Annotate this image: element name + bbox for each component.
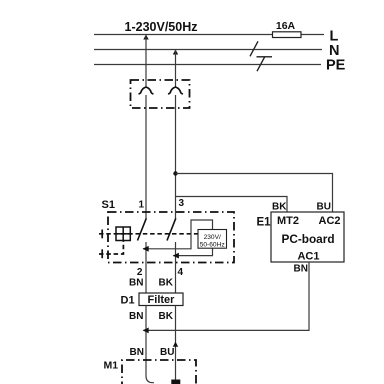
PC-board box E1 <box>271 212 344 262</box>
lamp wiring loop <box>143 220 213 256</box>
wire from L down to connector <box>145 35 147 88</box>
svg-text:BK: BK <box>159 278 174 289</box>
svg-text:PE: PE <box>326 58 346 74</box>
arrow AC1 return onto BN wire <box>143 328 149 334</box>
svg-text:1: 1 <box>139 200 145 211</box>
svg-text:16A: 16A <box>276 20 296 32</box>
arrow connection to N <box>173 50 178 55</box>
wire contact 2 down <box>145 242 147 293</box>
mechanical linkage 2 dashed <box>99 241 123 255</box>
svg-text:BK: BK <box>272 202 287 213</box>
svg-text:AC1: AC1 <box>297 251 319 263</box>
lamp rating box <box>198 230 227 249</box>
supply line PE <box>94 64 321 66</box>
filter box D1 <box>139 293 183 306</box>
svg-text:D1: D1 <box>121 295 135 307</box>
wire AC1 return to BN <box>144 262 310 330</box>
contact blade 1-2 <box>138 218 147 240</box>
switch S1 enclosure dash-dot box <box>108 212 234 263</box>
svg-text:BN: BN <box>130 347 144 358</box>
svg-text:BU: BU <box>160 347 174 358</box>
svg-text:Filter: Filter <box>148 294 176 306</box>
svg-text:PC-board: PC-board <box>281 232 334 246</box>
svg-text:MT2: MT2 <box>277 215 299 227</box>
svg-text:S1: S1 <box>102 199 115 211</box>
supply line L <box>94 34 324 36</box>
motor M1 enclosure dash-dot box <box>122 360 196 384</box>
contact blade 3-4 <box>167 218 176 240</box>
svg-text:3: 3 <box>179 198 185 209</box>
junction node on N wire <box>173 171 177 175</box>
svg-text:50-60Hz: 50-60Hz <box>200 241 225 248</box>
connector housing dash-dot box <box>131 80 190 108</box>
svg-text:BK: BK <box>159 311 174 322</box>
wire from N down to connector <box>175 50 177 88</box>
svg-text:BN: BN <box>129 311 143 322</box>
wire plug pin left down to S1 contact 1 <box>145 95 147 219</box>
lamp tap arrow on wire 2 <box>143 246 149 252</box>
lamp tap arrow on wire 4 <box>173 253 179 259</box>
svg-text:E1: E1 <box>257 217 272 229</box>
actuator square cross line vertical <box>122 227 124 241</box>
wire branch BU to AC2 <box>176 174 333 213</box>
svg-text:AC2: AC2 <box>319 215 341 227</box>
svg-text:BU: BU <box>317 202 331 213</box>
svg-text:2: 2 <box>137 267 143 278</box>
wire plug pin right down to S1 contact 3 <box>175 95 177 219</box>
PE-line break tick bar <box>257 56 273 58</box>
svg-text:BN: BN <box>129 278 143 289</box>
arrow up on BU wire <box>173 342 178 347</box>
supply line N <box>94 49 322 51</box>
svg-text:BN: BN <box>294 264 308 275</box>
svg-text:1-230V/50Hz: 1-230V/50Hz <box>125 20 198 34</box>
N-line break slash <box>250 41 258 56</box>
linkage end tick upper <box>101 230 103 239</box>
linkage end tick lower <box>101 249 103 258</box>
connector socket arc right <box>169 87 183 94</box>
svg-text:4: 4 <box>178 267 184 278</box>
wire BK/BU filter down to M1 <box>175 306 177 380</box>
PE-line break slash <box>257 56 265 71</box>
BU wire terminal pad <box>171 380 180 384</box>
svg-text:M1: M1 <box>104 360 119 372</box>
fuse F1 16A <box>273 32 302 38</box>
actuator square <box>116 227 130 241</box>
actuator square cross line horizontal <box>116 233 132 235</box>
wire contact 4 down <box>175 242 177 293</box>
mechanical linkage dashed line <box>99 233 198 235</box>
wire branch BK to MT2 <box>176 197 288 213</box>
arrow connection to L <box>143 35 148 40</box>
wire BN filter to M1 with bottom curve <box>146 306 154 383</box>
connector socket arc left <box>139 87 153 94</box>
svg-text:230V/: 230V/ <box>204 234 221 241</box>
